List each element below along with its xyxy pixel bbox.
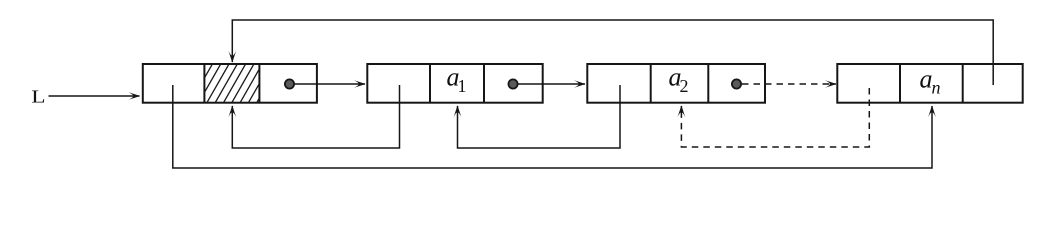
wire N2 next dashed arrow to N3	[742, 83, 836, 85]
wire N3 prev dashed pointer back to N2	[681, 88, 869, 147]
wire N3 next pointer up over top to N0	[232, 20, 993, 85]
wire N1 next arrow to N2	[518, 83, 585, 85]
node N1 cell divider 1	[429, 64, 431, 103]
node N2 box	[587, 64, 765, 103]
wire N0 next arrow to N1	[294, 83, 365, 85]
node N0 (header) box	[143, 64, 317, 103]
node N2 next pointer dot	[732, 79, 741, 88]
node N0 hatched data cell	[182, 64, 279, 103]
svg-text:2: 2	[680, 76, 689, 96]
wire N3 prev arrow tip into N2	[680, 106, 682, 114]
node N0 cell divider 1	[203, 64, 205, 103]
node N1 cell divider 2	[483, 64, 485, 103]
node N2 cell divider 2	[707, 64, 709, 103]
svg-text:n: n	[932, 78, 941, 98]
node N3 cell divider 2	[962, 64, 964, 103]
wire N0 prev pointer along bottom to N3	[173, 85, 932, 168]
svg-text:L: L	[31, 86, 45, 107]
node N1 box	[367, 64, 542, 103]
node N0 next pointer dot	[285, 79, 294, 88]
wire L arrow to head node	[49, 95, 140, 97]
node N3 box	[837, 64, 1022, 103]
wire N2 prev pointer back to N1	[458, 85, 621, 148]
node N0 cell divider 2	[258, 64, 260, 103]
wire N1 prev pointer back to N0	[232, 85, 399, 148]
node N2 cell divider 1	[650, 64, 652, 103]
node N3 cell divider 1	[899, 64, 901, 103]
svg-text:1: 1	[458, 76, 467, 96]
node N1 next pointer dot	[508, 79, 517, 88]
